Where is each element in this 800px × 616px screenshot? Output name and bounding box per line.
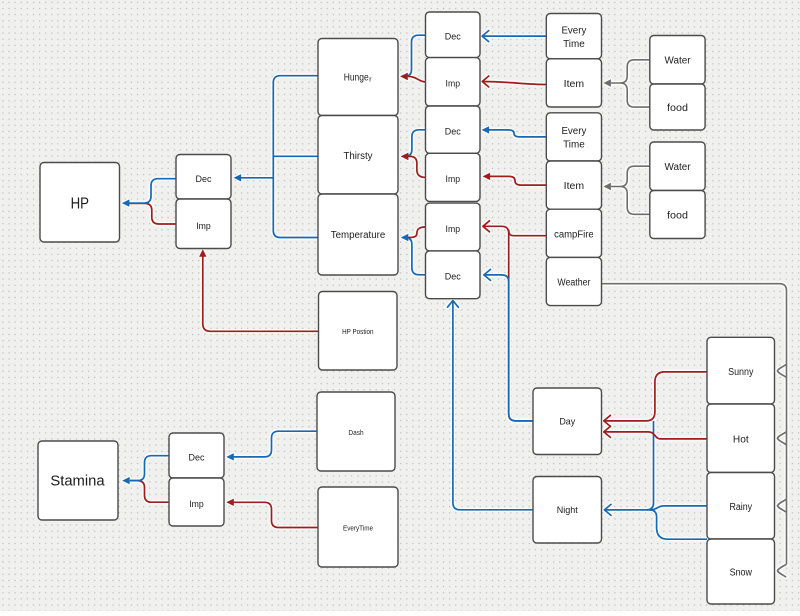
wire Rainy->Night (blue) [604, 504, 707, 539]
node Dec3 [426, 251, 481, 299]
svg-text:Imp: Imp [446, 174, 461, 185]
wire Dec2->Thirsty (blue) [401, 130, 426, 160]
wire Dec3->Temperature (blue) [401, 234, 426, 275]
wire EveryTimeB->ImpB (red) [226, 499, 318, 528]
svg-text:Water: Water [665, 56, 692, 67]
node Thirsty [318, 116, 398, 195]
svg-text:Thirsty: Thirsty [344, 151, 373, 162]
node Imp1 [426, 58, 481, 106]
wire Night->Dec3 bottom (blue) [448, 301, 534, 510]
node Imp0 [176, 199, 231, 249]
svg-text:Hot: Hot [733, 435, 749, 446]
node HP Postion [319, 292, 398, 371]
node DecB [169, 433, 224, 478]
node Night [533, 477, 602, 544]
wire EveryTime1->Dec1 (blue) [482, 31, 546, 42]
svg-text:Time: Time [563, 140, 585, 151]
wire Rainy-rail->Day upper (blue, under red) [647, 421, 654, 510]
node EveryTimeB [318, 487, 398, 567]
node food1 [650, 84, 705, 130]
node ImpB [169, 478, 224, 526]
svg-text:Dec: Dec [189, 453, 205, 464]
node Imp3 [426, 203, 481, 251]
wire Day->Imp3 rail (red) [483, 226, 533, 421]
wire campFire->Imp3 (red) [483, 221, 546, 236]
node campFire [546, 209, 601, 257]
wire Sunny->Day (red) [604, 372, 707, 427]
node Dash [317, 392, 395, 471]
svg-text:Every: Every [561, 25, 586, 36]
svg-text:Item: Item [564, 181, 584, 192]
svg-text:Imp: Imp [446, 79, 461, 90]
svg-text:Time: Time [563, 39, 585, 50]
svg-text:Imp: Imp [196, 221, 211, 232]
wire EveryTime2->Dec2 (blue) [482, 126, 547, 137]
wire Item1->Imp1 (red) [482, 76, 546, 87]
svg-text:Water: Water [665, 162, 692, 173]
node Day [533, 388, 602, 455]
svg-text:EveryTime: EveryTime [343, 523, 373, 532]
svg-text:Imp: Imp [446, 224, 461, 235]
wire Imp2->Thirsty (red) [401, 153, 426, 178]
wire ImpB->Stamina (red) [130, 481, 169, 503]
node EveryTime2 [546, 113, 601, 161]
svg-text:Imp: Imp [189, 499, 204, 510]
wire Dec0->HP (blue) [122, 179, 176, 207]
node EveryTime1 [546, 14, 601, 59]
svg-text:Dec: Dec [445, 272, 461, 283]
node Water2 [650, 142, 705, 191]
wire DecB->Stamina (blue) [122, 456, 169, 485]
node Snow [707, 539, 775, 604]
wire Hot->Day (red) [604, 426, 707, 439]
wire Water1/food1->Item1 (gray) [603, 60, 649, 107]
node Dec2 [426, 106, 481, 153]
svg-text:Weather: Weather [557, 278, 591, 289]
svg-text:Hunge: Hunge [344, 73, 369, 84]
svg-text:Dash: Dash [348, 428, 363, 437]
node Temperature [318, 194, 398, 275]
wire Item2->Imp2 (red) [483, 173, 547, 185]
wire Imp1->Hunger (red) [400, 73, 425, 82]
svg-text:Rainy: Rainy [730, 502, 753, 513]
node food2 [650, 191, 705, 239]
node Stamina [38, 441, 118, 520]
svg-text:Temperature: Temperature [331, 230, 386, 241]
node Dec0 [176, 155, 231, 200]
svg-text:HP Postion: HP Postion [342, 327, 373, 336]
svg-text:Night: Night [557, 505, 578, 515]
svg-text:Day: Day [559, 417, 575, 427]
svg-text:food: food [667, 103, 688, 114]
node Item1 [546, 59, 601, 107]
svg-text:Dec: Dec [196, 174, 212, 185]
svg-text:Item: Item [564, 79, 584, 90]
wire Imp0->HP (red) [129, 203, 176, 224]
node Weather [546, 257, 601, 305]
wire Dec1->Hunger (blue) [400, 35, 425, 80]
wire Dash->DecB (blue) [226, 431, 317, 460]
svg-text:HP: HP [71, 196, 89, 213]
svg-text:Every: Every [561, 126, 586, 137]
connector white casings [122, 31, 787, 577]
wire Water2/food2->Item2 (gray) [603, 166, 649, 214]
node Hot [707, 404, 775, 473]
node Rainy [707, 473, 775, 540]
node Hunger [318, 39, 398, 116]
node Sunny [707, 337, 775, 404]
wire HPPostion->Imp0 (red) [199, 249, 318, 331]
node Imp2 [426, 153, 481, 201]
svg-text:food: food [667, 210, 688, 221]
wire Imp3->Temperature (red) [405, 227, 426, 238]
svg-text:Snow: Snow [730, 568, 753, 579]
node Item2 [546, 161, 601, 209]
node HP [40, 163, 120, 243]
node Dec1 [426, 12, 481, 58]
node Water1 [650, 36, 705, 85]
svg-text:Dec: Dec [445, 126, 461, 137]
svg-text:Stamina: Stamina [50, 474, 105, 490]
wire Day->Dec3 rail (blue) [484, 269, 533, 421]
svg-text:Sunny: Sunny [728, 367, 753, 378]
svg-text:Dec: Dec [445, 32, 461, 43]
wire Weather->Sunny/Hot/Rainy/Snow rail (gray) [602, 284, 787, 577]
wire bracket Hunger/Thirsty/Temperature->Dec0 (blue) [234, 76, 318, 238]
svg-text:campFire: campFire [554, 229, 594, 240]
